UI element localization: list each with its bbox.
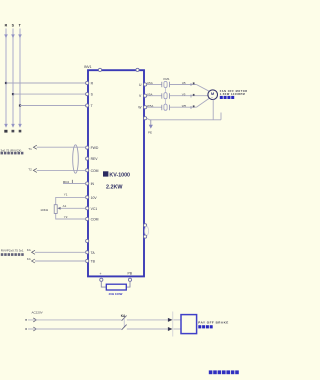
ground PE arrow (149, 120, 153, 129)
wire PB to braking resistor (126, 281, 130, 287)
svg-text:REV: REV (91, 157, 99, 161)
svg-text:VC1: VC1 (91, 207, 98, 211)
label PE (148, 131, 152, 135)
label T2 (28, 167, 32, 171)
cable note block B line1 (1, 249, 24, 253)
label motor line2 (220, 93, 245, 96)
wire KM1 to motor U (169, 82, 209, 91)
label 2.2KW (106, 185, 123, 191)
svg-text:RVVP2x0.75 3x1: RVVP2x0.75 3x1 (1, 249, 24, 253)
wire T to inverter (20, 105, 86, 107)
braking resistor RB (106, 284, 126, 290)
pin P2 (right edge spare) (144, 235, 147, 238)
node V1 (bottom label of phase S) (12, 130, 15, 133)
pin VC1 (86, 207, 98, 211)
pin COM2 (86, 217, 99, 221)
wire R to inverter (6, 82, 86, 84)
wire plus to braking resistor (101, 281, 106, 287)
svg-text:AC220V: AC220V (32, 311, 43, 315)
svg-text:PB: PB (128, 271, 133, 275)
label KA1 (27, 248, 31, 252)
pin REV (86, 157, 99, 161)
motor M (208, 90, 218, 100)
pin PB (bottom edge) (128, 271, 133, 281)
wire to TA (32, 250, 86, 254)
label U5 (182, 81, 186, 85)
wire V to KM1 (147, 95, 162, 97)
svg-text:10KΩ: 10KΩ (40, 208, 49, 212)
pin TA (86, 251, 96, 255)
label V5A (147, 92, 153, 96)
pin plus (bottom edge) (100, 272, 103, 282)
wire U to KM1 (147, 84, 162, 86)
wire S to inverter (13, 93, 86, 95)
shielded twisted pair loop (73, 145, 79, 173)
pin FWD (86, 146, 99, 150)
wire N (brake supply neutral) (25, 327, 181, 331)
loop between spare pins (145, 226, 149, 235)
label Y2 (64, 215, 68, 219)
connector arrow L (168, 312, 173, 337)
pin 10V (86, 196, 98, 200)
svg-text:A1: A1 (63, 204, 67, 208)
pin U (139, 83, 147, 87)
label Y1 (64, 193, 68, 197)
pin V (139, 94, 147, 98)
svg-text:INV1: INV1 (84, 65, 92, 69)
svg-text:TB: TB (91, 260, 96, 264)
contact KA pole 2 (122, 325, 127, 330)
wire pot wiper to VC1 (61, 207, 86, 209)
pin E (ground) (144, 117, 147, 120)
wire MD2 to IN (63, 183, 86, 185)
svg-text:FWD: FWD (91, 146, 99, 150)
pin T (86, 104, 93, 108)
label drawing title (CJK footer) (209, 370, 239, 374)
pin spare (86, 239, 89, 242)
terminal E1 on top edge (98, 68, 101, 71)
node S (phase label) (12, 23, 15, 27)
label KM1 (163, 77, 170, 81)
pin TB (86, 259, 96, 263)
pin S (86, 93, 94, 97)
wire ground bus (147, 99, 221, 119)
svg-text:KM1: KM1 (163, 77, 170, 81)
label W5A (147, 104, 154, 108)
node R (phase label) (5, 23, 8, 27)
wire T2 to COM (33, 168, 85, 172)
wire KM1 to motor V (169, 94, 208, 98)
svg-text:T1: T1 (28, 147, 32, 151)
svg-text:1.5KW 1440RPM: 1.5KW 1440RPM (220, 93, 245, 96)
label W5 (182, 104, 187, 108)
contact KA linkage (123, 318, 125, 327)
pin R (86, 81, 94, 85)
svg-text:T2: T2 (28, 167, 32, 171)
wire pot bottom to COM (56, 213, 86, 219)
wire T1 to FWD (33, 145, 85, 149)
svg-text:10V: 10V (91, 196, 98, 200)
connector arrow N (168, 327, 173, 331)
contact KA pole 1 (122, 316, 127, 321)
svg-text:PE: PE (148, 131, 152, 135)
label A1 (63, 204, 67, 208)
pin P1 (right edge spare) (144, 224, 147, 227)
node U1 (bottom label of phase R) (4, 130, 7, 133)
svg-text:KA: KA (27, 257, 31, 261)
svg-text:COM: COM (91, 169, 99, 173)
svg-text:TA: TA (91, 251, 96, 255)
wire L (brake supply live) (25, 318, 181, 322)
pin W (138, 106, 146, 110)
svg-text:Y2: Y2 (64, 215, 68, 219)
node T (phase label) (19, 23, 22, 27)
brake box (181, 315, 197, 334)
label KA (121, 314, 126, 318)
svg-text:3x0.75 (RVV2X): 3x0.75 (RVV2X) (1, 148, 22, 152)
label 10K (40, 208, 49, 212)
wire phase S vertical (11, 29, 15, 128)
wire pot top to 10V (56, 197, 86, 204)
contactor linkage U-V (165, 88, 167, 93)
label MD2 (63, 180, 73, 184)
label INV1 (84, 65, 92, 69)
wire KM1 to motor W (169, 98, 209, 109)
wire phase T vertical (18, 29, 22, 128)
label U5A (147, 81, 153, 85)
potentiometer RP (54, 205, 60, 214)
cable note block B line2 (1, 253, 24, 256)
pin COM1 (86, 169, 99, 173)
junction on phase T (19, 104, 21, 106)
label model KV-1000 (103, 171, 130, 178)
contactor KM1 pole U (162, 81, 170, 87)
pin IN (86, 182, 95, 186)
label AC220V (32, 311, 43, 315)
svg-text:PAY OFF BRAKE: PAY OFF BRAKE (198, 320, 228, 324)
label T1 (28, 147, 32, 151)
label V5 (182, 92, 186, 96)
wire W to KM1 (147, 106, 162, 108)
label motor name (CJK) (220, 96, 234, 99)
node W1 (bottom label of phase T) (19, 130, 22, 133)
wire phase R vertical (4, 29, 8, 128)
svg-text:2.2KW: 2.2KW (106, 185, 123, 191)
svg-text:IN: IN (91, 182, 95, 186)
svg-text:T: T (91, 104, 93, 108)
cable note block A line1 (1, 148, 22, 152)
svg-text:Y1: Y1 (64, 193, 68, 197)
contactor KM1 pole V (162, 93, 170, 99)
label brake name (CJK) (198, 325, 212, 328)
cable note block A line2 (1, 152, 24, 155)
svg-text:COM: COM (91, 218, 99, 222)
junction on phase S (12, 93, 14, 95)
junction on phase R (5, 82, 7, 84)
wire to TB (27, 257, 86, 263)
label motor line1 (220, 90, 248, 93)
svg-text:KV-1000: KV-1000 (109, 173, 130, 179)
svg-text:R: R (5, 23, 8, 27)
svg-text:KA: KA (27, 248, 31, 252)
inverter INV1 box (88, 70, 144, 276)
svg-text:40Ω 100W: 40Ω 100W (109, 292, 123, 296)
svg-text:+: + (100, 272, 102, 276)
contactor KM1 pole W (162, 104, 170, 110)
label braking resistor value (109, 292, 123, 296)
label brake line1 (198, 320, 228, 324)
svg-text:~: ~ (211, 96, 213, 100)
terminal E2 on top edge (136, 68, 139, 71)
contactor linkage V-W (165, 100, 167, 105)
